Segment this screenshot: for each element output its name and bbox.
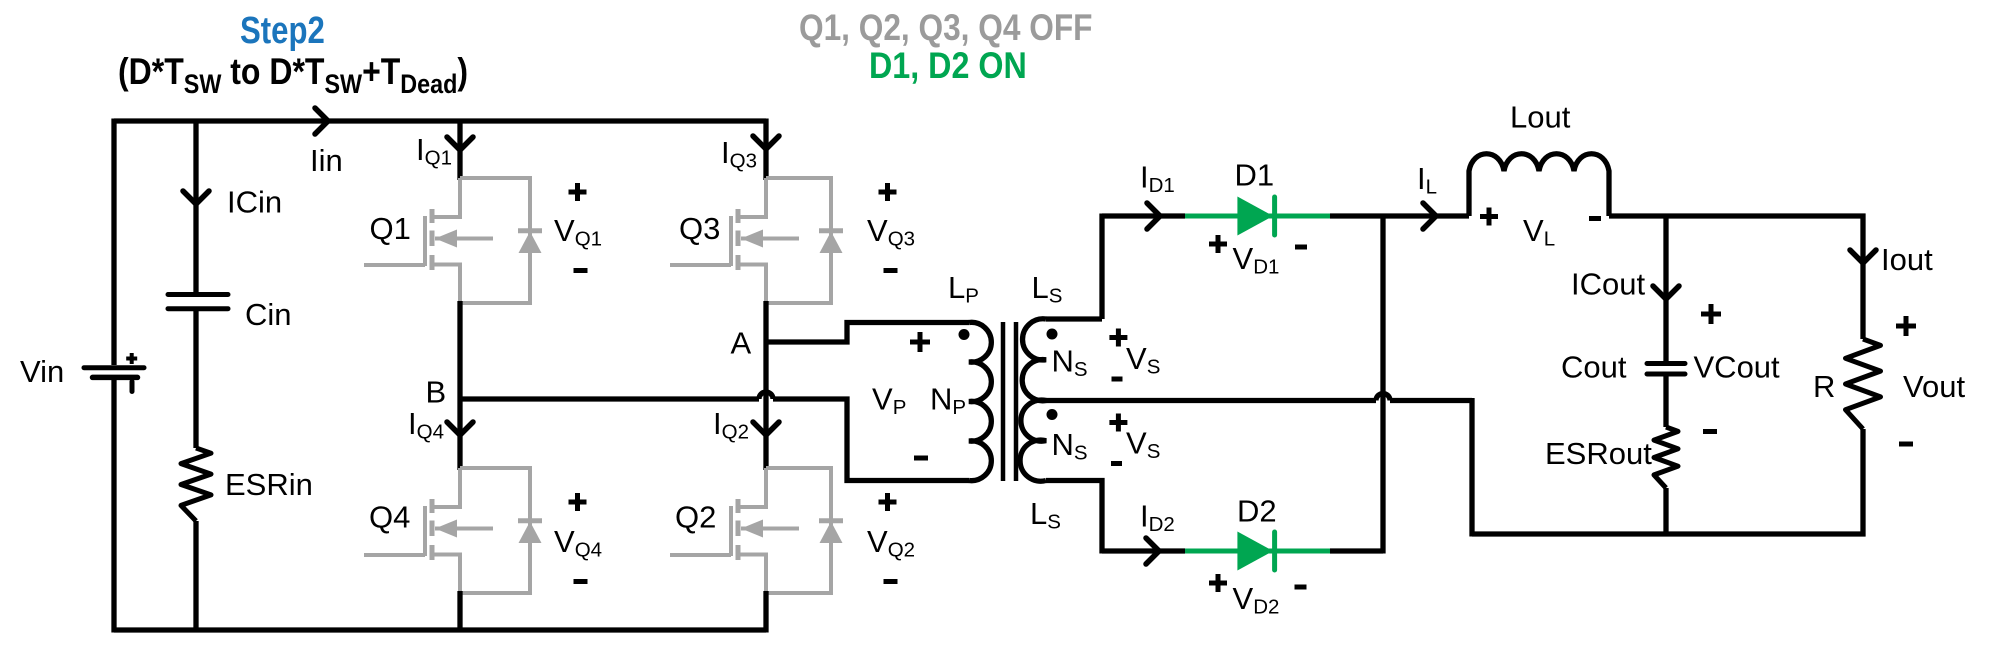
label Vout plus <box>1896 316 1916 336</box>
label VQ4 minus <box>574 579 588 584</box>
label VCout plus <box>1701 304 1721 324</box>
wire left vertical upper <box>111 119 116 366</box>
wire to D2 <box>1102 548 1185 553</box>
svg-text:ICin: ICin <box>227 185 282 220</box>
label VQ4 <box>554 524 602 562</box>
wire output top rail <box>1609 213 1866 218</box>
arrow IQ1 <box>447 137 473 150</box>
label IQ1 <box>416 132 452 170</box>
label Vs top <box>1126 341 1160 379</box>
wire center tap left <box>1046 398 1376 403</box>
label VQ1 minus <box>574 268 588 273</box>
wire Cin branch upper <box>193 121 198 292</box>
label IQ2 <box>713 406 749 444</box>
resistor ESRout <box>1654 427 1678 488</box>
label VCout minus <box>1703 429 1717 434</box>
label Vs top minus <box>1112 377 1123 382</box>
wire bottom rail <box>114 627 766 632</box>
wire Cout to ESRout <box>1663 374 1668 427</box>
battery Vin plate short <box>93 375 138 381</box>
label VQ2 plus <box>879 493 897 511</box>
svg-text:Q4: Q4 <box>369 500 410 535</box>
label Vout minus <box>1899 442 1913 447</box>
svg-text:Q3: Q3 <box>679 211 720 246</box>
phase dot secondary top <box>1047 329 1058 340</box>
svg-text:A: A <box>731 326 752 361</box>
winding secondary bottom Ns <box>1020 400 1046 481</box>
wire D2 to node <box>1330 548 1383 553</box>
title D1 D2 ON <box>869 46 1027 87</box>
arrow Iout <box>1850 250 1876 263</box>
wire left vertical lower <box>111 380 116 633</box>
battery Vin plate long <box>84 365 144 370</box>
label VD2 minus <box>1295 585 1307 590</box>
winding primary Lp <box>969 322 991 480</box>
label Q2 <box>675 500 716 535</box>
svg-text:B: B <box>426 375 447 410</box>
label D2 <box>1237 494 1277 529</box>
label B <box>426 375 447 410</box>
label VQ3 plus <box>879 183 897 201</box>
label VQ2 <box>867 524 915 562</box>
transistor Q1 <box>364 178 542 303</box>
label Lout <box>1510 100 1571 135</box>
label Ls bottom <box>1030 496 1061 534</box>
label Vp plus <box>910 332 930 352</box>
label Vp minus <box>914 456 928 461</box>
title timing range <box>118 52 468 100</box>
label VQ3 <box>867 213 915 251</box>
wire secondary bottom <box>1046 481 1102 554</box>
label D1 <box>1235 158 1275 193</box>
label VD1 <box>1233 241 1280 279</box>
core line right <box>1014 322 1019 481</box>
diode D1 <box>1185 197 1330 236</box>
label Vin <box>20 354 64 389</box>
battery Vin plus <box>126 353 137 364</box>
wire Q4 source leg <box>457 591 462 633</box>
label Q4 <box>369 500 410 535</box>
label ICout <box>1571 267 1645 302</box>
winding secondary top Ns <box>1022 319 1046 401</box>
wire output bottom rail <box>1472 531 1866 536</box>
wire ESRin to bottom <box>193 521 198 630</box>
wire center tap right <box>1390 398 1472 403</box>
wire D1 to Lout <box>1330 213 1469 218</box>
svg-text:Vin: Vin <box>20 354 64 389</box>
svg-text:ESRin: ESRin <box>225 467 313 502</box>
capacitor Cin <box>168 295 228 309</box>
label Iout <box>1881 242 1933 277</box>
title Q1 Q2 Q3 Q4 OFF <box>799 8 1092 49</box>
label VQ2 minus <box>884 579 898 584</box>
svg-text:Q1, Q2, Q3, Q4 OFF: Q1, Q2, Q3, Q4 OFF <box>799 8 1092 49</box>
wire Q3 drain leg <box>763 119 768 181</box>
wire Cout leg <box>1663 216 1668 362</box>
wire hop over A leg <box>759 392 773 399</box>
svg-text:Q2: Q2 <box>675 500 716 535</box>
label Lp <box>948 270 979 308</box>
inductor Lout <box>1469 154 1609 216</box>
label IL <box>1417 161 1437 199</box>
label Cout <box>1561 350 1627 385</box>
wire top rail <box>114 118 766 123</box>
svg-text:R: R <box>1813 369 1835 404</box>
label Vs bottom minus <box>1111 461 1122 466</box>
svg-text:ICout: ICout <box>1571 267 1645 302</box>
resistor ESRin <box>181 448 211 521</box>
label R <box>1813 369 1835 404</box>
battery Vin minus <box>130 382 135 392</box>
transistor Q3 <box>670 178 843 303</box>
wire B to hop <box>460 396 759 401</box>
wire Cin to ESRin <box>193 311 198 448</box>
label IQ3 <box>721 135 757 173</box>
arrow IQ3 <box>753 136 779 149</box>
label Np <box>930 382 966 420</box>
label VD2 <box>1233 581 1280 619</box>
label VD1 plus <box>1209 235 1227 253</box>
label Q3 <box>679 211 720 246</box>
core line left <box>1001 322 1006 481</box>
title Step2 <box>240 10 325 52</box>
label ID2 <box>1140 499 1175 537</box>
transistor Q2 <box>670 468 843 593</box>
svg-text:Cin: Cin <box>245 297 292 332</box>
label VL plus <box>1480 208 1498 226</box>
wire Q3 source to A <box>763 301 768 470</box>
label VL <box>1523 213 1555 251</box>
svg-text:D1: D1 <box>1235 158 1275 193</box>
svg-text:VCout: VCout <box>1694 350 1781 385</box>
arrow ICout <box>1653 286 1679 299</box>
wire Q1 source to B <box>457 301 462 470</box>
wire primary bottom <box>773 399 969 481</box>
arrow ID2 <box>1146 538 1159 564</box>
svg-text:Step2: Step2 <box>240 10 325 52</box>
label VL minus <box>1589 216 1601 221</box>
arrow IQ2 <box>753 422 779 435</box>
svg-text:Cout: Cout <box>1561 350 1627 385</box>
label VQ1 plus <box>569 183 587 201</box>
svg-text:Iout: Iout <box>1881 242 1933 277</box>
svg-text:Q1: Q1 <box>370 211 411 246</box>
wire D2 cathode up <box>1380 216 1385 554</box>
label A <box>731 326 752 361</box>
label VCout <box>1694 350 1781 385</box>
arrow ICin <box>183 191 209 204</box>
label Vs top plus <box>1109 329 1127 347</box>
wire R to bottom <box>1860 429 1865 537</box>
svg-text:Iin: Iin <box>310 143 343 178</box>
arrow IL <box>1423 203 1436 229</box>
svg-text:D1, D2 ON: D1, D2 ON <box>869 46 1027 87</box>
label VQ3 minus <box>884 268 898 273</box>
label VD2 plus <box>1209 574 1227 592</box>
diode D2 <box>1185 532 1330 571</box>
svg-text:ESRout: ESRout <box>1545 436 1652 471</box>
phase dot primary <box>959 329 970 340</box>
wire node A to primary top <box>766 323 969 343</box>
wire to D1 <box>1102 213 1185 218</box>
wire center tap down <box>1469 398 1474 537</box>
wire ESRout to bottom <box>1663 488 1668 534</box>
label Ls top <box>1032 270 1063 308</box>
label Vp <box>872 382 906 420</box>
arrow IQ4 <box>447 422 473 435</box>
svg-text:D2: D2 <box>1237 494 1277 529</box>
wire secondary top <box>1046 214 1102 320</box>
resistor R <box>1846 339 1881 429</box>
label Q1 <box>370 211 411 246</box>
svg-text:Lout: Lout <box>1510 100 1571 135</box>
arrow Iin <box>315 108 328 134</box>
wire Q1 drain leg <box>457 119 462 181</box>
wire Iout leg <box>1860 214 1865 340</box>
label Ns bottom <box>1052 427 1088 465</box>
label IQ4 <box>408 406 444 444</box>
label Vs bottom plus <box>1109 414 1127 432</box>
capacitor Cout <box>1647 364 1685 375</box>
wire Q2 source leg <box>763 591 768 633</box>
label ID1 <box>1140 160 1175 198</box>
label Iin <box>310 143 343 178</box>
transistor Q4 <box>364 468 542 593</box>
label VQ1 <box>554 213 602 251</box>
label VQ4 plus <box>569 493 587 511</box>
phase dot secondary bottom <box>1047 409 1058 420</box>
wire hop over D2 leg <box>1376 394 1390 401</box>
arrow ID1 <box>1147 203 1160 229</box>
svg-text:Vout: Vout <box>1903 369 1965 404</box>
label ESRout <box>1545 436 1652 471</box>
label ESRin <box>225 467 313 502</box>
label Vout <box>1903 369 1965 404</box>
label VD1 minus <box>1295 245 1307 250</box>
label Vs bottom <box>1126 426 1160 464</box>
label ICin <box>227 185 282 220</box>
label Ns top <box>1052 344 1088 382</box>
label Cin <box>245 297 292 332</box>
